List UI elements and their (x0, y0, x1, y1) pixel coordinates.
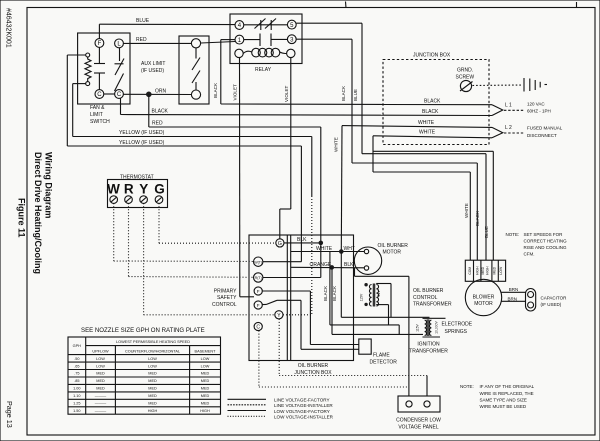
flame detector (359, 339, 371, 354)
L2 arrow (492, 127, 503, 137)
relay contact 4 (235, 21, 244, 30)
svg-text:BLOWER: BLOWER (473, 295, 495, 301)
svg-text:5: 5 (290, 23, 294, 29)
wire blue horizontal to blower (362, 153, 486, 155)
svg-text:.50: .50 (74, 357, 79, 361)
wire G dotted (158, 203, 160, 243)
thermostat screws (110, 196, 163, 204)
svg-text:1.00: 1.00 (73, 387, 80, 391)
svg-text:DETECTOR: DETECTOR (370, 360, 398, 366)
node white junction (339, 249, 344, 254)
wire R dotted (128, 203, 130, 276)
svg-text:60HZ - 1PH: 60HZ - 1PH (527, 109, 551, 114)
ignition transformer (423, 317, 446, 319)
svg-text:YELLOW (IF USED): YELLOW (IF USED) (119, 130, 165, 136)
capacitor (526, 289, 536, 312)
svg-text:ORN: ORN (155, 89, 167, 95)
svg-text:MED: MED (148, 402, 157, 406)
svg-text:MED: MED (201, 394, 210, 398)
relay contact 3 (287, 35, 296, 44)
svg-text:BLUE: BLUE (484, 226, 489, 238)
wire RED L to aux limit (123, 42, 191, 44)
relay contact 5 (287, 20, 296, 29)
svg-text:OIL BURNER: OIL BURNER (298, 363, 329, 369)
svg-text:115V: 115V (359, 293, 363, 301)
svg-text:SAME TYPE AND SIZE: SAME TYPE AND SIZE (480, 397, 527, 402)
wire ORANGE line to oil burner motor (291, 266, 365, 269)
wire resistor bottom stub (73, 83, 86, 85)
svg-text:G: G (154, 182, 165, 197)
svg-text:BLACK: BLACK (475, 210, 480, 226)
junction box dashed (383, 60, 489, 145)
wire white horizontal lower to blower com (373, 171, 470, 173)
svg-text:MED: MED (201, 402, 210, 406)
svg-text:VOLTAGE PANEL: VOLTAGE PANEL (398, 424, 439, 430)
svg-text:MED: MED (148, 372, 157, 376)
wire relay5 right (296, 22, 362, 24)
svg-text:LOWEST PERMISSIBLE HEATING SPE: LOWEST PERMISSIBLE HEATING SPEED (116, 340, 190, 344)
node blk junction (319, 241, 324, 246)
svg-text:WIRE MUST BE USED: WIRE MUST BE USED (480, 404, 527, 409)
svg-text:———: ——— (95, 402, 107, 406)
aux terminal bottom (191, 90, 200, 99)
svg-text:WHITE: WHITE (333, 137, 338, 152)
svg-text:WHITE: WHITE (316, 246, 333, 252)
svg-text:4: 4 (238, 23, 242, 29)
wire F up (98, 24, 100, 38)
relay contact 1 (235, 35, 244, 44)
svg-text:F: F (98, 41, 102, 47)
svg-text:CORRECT HEATING: CORRECT HEATING (524, 238, 568, 243)
svg-text:LOW: LOW (201, 357, 210, 361)
svg-text:NOTE:: NOTE: (506, 232, 520, 237)
fan & limit switch box (78, 33, 130, 104)
svg-text:BLACK: BLACK (213, 82, 218, 98)
svg-text:COM: COM (468, 267, 472, 275)
primary safety control box (249, 235, 354, 361)
svg-text:BLACK: BLACK (323, 285, 328, 301)
wire BRN upper (501, 291, 525, 293)
svg-text:LINE VOLTAGE-INSTALLER: LINE VOLTAGE-INSTALLER (274, 403, 333, 408)
svg-text:.65: .65 (74, 364, 79, 368)
svg-text:G: G (278, 241, 282, 247)
oil burner motor (354, 247, 381, 274)
svg-text:BLACK: BLACK (424, 98, 441, 104)
wire WHITE line to oil burner motor (291, 251, 365, 253)
svg-text:CONTROL: CONTROL (212, 302, 237, 308)
svg-text:YELLOW (IF USED): YELLOW (IF USED) (119, 140, 165, 146)
terminal C left (95, 90, 104, 99)
wire blue from relay5 down (361, 23, 363, 154)
wire F1 to flame detector (262, 290, 310, 292)
svg-text:TRANSFORMER: TRANSFORMER (413, 302, 452, 308)
svg-text:BLACK: BLACK (332, 285, 337, 301)
svg-text:VIOLET: VIOLET (284, 85, 289, 102)
wire orange dot down (148, 94, 150, 127)
svg-text:10,000V: 10,000V (434, 320, 438, 333)
svg-text:RED: RED (136, 37, 147, 43)
svg-text:BLK: BLK (344, 262, 354, 268)
svg-text:WHITE: WHITE (418, 120, 435, 126)
svg-text:RISE AND COOLING: RISE AND COOLING (524, 245, 568, 250)
wire BLK from G (284, 242, 321, 244)
relay coil terminal right (287, 49, 295, 57)
svg-text:JUNCTION BOX: JUNCTION BOX (413, 53, 451, 59)
legend (228, 398, 267, 400)
terminal L (115, 39, 124, 48)
svg-text:LOW: LOW (96, 364, 105, 368)
wire Y dotted (143, 203, 145, 315)
svg-text:SEE NOZZLE SIZE GPH ON RATING: SEE NOZZLE SIZE GPH ON RATING PLATE (81, 327, 205, 334)
svg-text:UPFLOW: UPFLOW (92, 350, 109, 354)
svg-text:1.10: 1.10 (73, 394, 80, 398)
L1 arrow (492, 105, 503, 116)
svg-text:F: F (257, 303, 260, 308)
terminal F lower (254, 301, 262, 309)
svg-text:Direct Drive Heating/Cooling: Direct Drive Heating/Cooling (33, 152, 43, 274)
svg-text:WHT: WHT (344, 246, 355, 252)
svg-text:#46432K001: #46432K001 (5, 8, 12, 48)
svg-text:MED: MED (96, 379, 105, 383)
svg-text:R(T): R(T) (255, 276, 262, 280)
wire black from relay3 down (351, 39, 353, 163)
terminal F upper (254, 287, 262, 295)
svg-text:RELAY: RELAY (255, 67, 272, 73)
svg-text:SCREW: SCREW (456, 75, 475, 81)
svg-text:Figure 11: Figure 11 (17, 198, 27, 238)
svg-text:HIGH: HIGH (476, 266, 480, 275)
svg-text:BLACK: BLACK (422, 109, 439, 115)
wire BLACK lower L1 (121, 114, 384, 117)
svg-text:R: R (124, 182, 134, 197)
svg-text:W: W (107, 182, 120, 197)
relay coil terminal left (235, 49, 243, 57)
wire aux limit to relay 1 (201, 42, 236, 44)
terminal W(T) (254, 257, 263, 266)
wire BRN lower (501, 300, 526, 302)
ground (523, 78, 525, 92)
svg-text:.85: .85 (74, 379, 79, 383)
wire violet1 (239, 58, 241, 297)
svg-text:WHITE: WHITE (464, 203, 469, 218)
relay box (230, 14, 302, 64)
wire black feed A2 (329, 252, 331, 325)
svg-text:LINE VOLTAGE-FACTORY: LINE VOLTAGE-FACTORY (274, 398, 330, 403)
terminal G (276, 239, 284, 247)
svg-text:SET SPEEDS FOR: SET SPEEDS FOR (524, 232, 564, 237)
svg-text:SPRINGS: SPRINGS (445, 329, 468, 335)
svg-text:MED: MED (201, 387, 210, 391)
terminal C (254, 322, 262, 330)
svg-text:RED: RED (152, 121, 163, 127)
relay top contact switch (244, 24, 288, 26)
svg-text:L 1: L 1 (505, 103, 512, 109)
svg-text:MED: MED (201, 379, 210, 383)
terminal Y (275, 311, 283, 319)
wire black feed A to ignition transformer (331, 267, 333, 334)
svg-text:LOW: LOW (148, 357, 157, 361)
svg-text:LOW VOLTAGE-INSTALLER: LOW VOLTAGE-INSTALLER (274, 415, 334, 420)
svg-text:MED: MED (201, 372, 210, 376)
wire white lower L2 (373, 136, 492, 138)
svg-text:Page 13: Page 13 (5, 401, 14, 428)
svg-text:3: 3 (290, 37, 294, 43)
aux switch (195, 48, 197, 59)
capacitor contact between F and C (98, 47, 100, 63)
wire dotted to ground (473, 84, 523, 87)
wire C to C (104, 93, 115, 95)
svg-text:1.50: 1.50 (73, 409, 80, 413)
node orange junction (146, 92, 152, 98)
svg-text:ORANGE: ORANGE (310, 262, 332, 268)
wire white upper L2 (342, 125, 383, 128)
svg-text:BLACK: BLACK (152, 109, 169, 115)
relay coil (243, 51, 251, 53)
svg-text:L: L (117, 42, 121, 48)
svg-text:1: 1 (238, 38, 242, 44)
wire L1 upper black (221, 103, 383, 106)
svg-text:WHITE: WHITE (419, 130, 436, 136)
svg-text:120 VAC: 120 VAC (527, 102, 545, 107)
svg-text:BASEMENT: BASEMENT (195, 350, 217, 354)
svg-text:NOTE:: NOTE: (460, 384, 474, 389)
condenser low voltage panel (398, 396, 440, 412)
wire W dotted (113, 203, 115, 261)
wire white feed B to ignition transformer (340, 252, 342, 318)
svg-text:BLACK: BLACK (341, 85, 346, 101)
wire transformer secondary top (376, 283, 391, 285)
svg-text:PRIMARY: PRIMARY (214, 289, 237, 295)
wire motor blk branch to condenser (354, 268, 356, 277)
wire violet2 (290, 58, 292, 209)
wire yellow2 down to WT (300, 146, 302, 262)
svg-text:C: C (256, 325, 260, 331)
svg-text:LOW VOLTAGE-FACTORY: LOW VOLTAGE-FACTORY (274, 409, 330, 414)
relay middle contact (244, 39, 260, 41)
node orange junction (330, 265, 335, 270)
svg-text:———: ——— (95, 394, 107, 398)
wire yellow1 down to Y (311, 137, 313, 197)
svg-text:F: F (257, 289, 260, 294)
aux limit box (179, 36, 209, 104)
svg-text:GPH: GPH (73, 344, 81, 348)
svg-text:SWITCH: SWITCH (90, 119, 110, 125)
oil burner control transformer (364, 283, 367, 286)
heater resistor (86, 53, 90, 57)
svg-text:OIL BURNER: OIL BURNER (413, 288, 444, 294)
wire RED lower (149, 126, 321, 128)
svg-text:MED: MED (148, 379, 157, 383)
svg-text:.75: .75 (74, 372, 79, 376)
svg-text:115V: 115V (415, 323, 419, 331)
svg-text:GRND.: GRND. (457, 68, 473, 74)
svg-text:IF ANY OF THE ORIGINAL: IF ANY OF THE ORIGINAL (480, 384, 535, 389)
svg-text:MOTOR: MOTOR (383, 249, 402, 255)
svg-text:Wiring Diagram: Wiring Diagram (44, 152, 54, 218)
terminal R(T) (254, 273, 263, 282)
svg-text:BLUE: BLUE (136, 18, 150, 24)
wire transformer secondary bottom (376, 304, 388, 306)
svg-text:MED: MED (481, 266, 485, 274)
svg-text:LOW: LOW (201, 364, 210, 368)
svg-text:CONTROL: CONTROL (413, 295, 438, 301)
nozzle table (68, 337, 221, 414)
svg-text:SAFETY: SAFETY (217, 295, 237, 301)
terminal F (95, 39, 104, 48)
svg-text:LOW: LOW (499, 266, 503, 275)
svg-text:MED: MED (148, 394, 157, 398)
svg-text:FUSED MANUAL: FUSED MANUAL (527, 126, 563, 131)
wire resistor top stub (67, 54, 85, 56)
wire C dotted down to condenser (258, 331, 260, 387)
svg-text:LOW: LOW (96, 357, 105, 361)
svg-text:HIGH: HIGH (200, 409, 210, 413)
svg-text:BRN: BRN (509, 287, 519, 292)
wire black horizontal to blower (352, 162, 477, 164)
svg-text:IGNITION: IGNITION (417, 341, 440, 347)
svg-text:MOTOR: MOTOR (474, 301, 493, 307)
svg-text:MED: MED (96, 387, 105, 391)
svg-text:TRANSFORMER: TRANSFORMER (409, 348, 448, 354)
svg-text:———: ——— (95, 409, 107, 413)
svg-text:W(T): W(T) (254, 260, 262, 264)
svg-text:AUX LIMIT: AUX LIMIT (141, 61, 165, 67)
svg-text:WIRE IS REPLACED, THE: WIRE IS REPLACED, THE (480, 391, 534, 396)
thermostat dotted wires (114, 203, 276, 315)
blower motor (465, 279, 501, 315)
wire ORN C to aux limit (123, 93, 191, 95)
svg-text:HIGH: HIGH (485, 266, 489, 275)
svg-text:VIOLET: VIOLET (232, 84, 237, 101)
svg-text:MED: MED (96, 372, 105, 376)
svg-text:CAPACITOR: CAPACITOR (541, 296, 568, 301)
terminal C right (115, 90, 124, 99)
svg-text:ELECTRODE: ELECTRODE (442, 322, 473, 328)
svg-text:JUNCTION BOX: JUNCTION BOX (294, 370, 332, 376)
svg-text:L 2: L 2 (505, 125, 512, 131)
outer frame (345, 2, 348, 9)
svg-text:BLUE: BLUE (353, 89, 358, 101)
svg-text:Y: Y (139, 182, 148, 197)
wire relay1 left to black down (221, 39, 235, 41)
svg-text:(IF USED): (IF USED) (141, 68, 164, 74)
wire red down through blk node to RT (320, 127, 322, 278)
wire white horizontal to blower (373, 150, 493, 152)
svg-text:LOW: LOW (148, 364, 157, 368)
svg-text:1.25: 1.25 (73, 402, 80, 406)
wire BLUE (99, 23, 235, 25)
wire white down to safety control (340, 126, 343, 251)
svg-text:C: C (97, 92, 102, 98)
wire yellow2 (67, 145, 301, 147)
svg-text:LIMIT: LIMIT (90, 112, 103, 118)
svg-text:C: C (117, 92, 122, 98)
svg-text:CFM.: CFM. (524, 251, 535, 256)
switch between L and C (119, 48, 121, 61)
svg-text:OIL BURNER: OIL BURNER (378, 243, 409, 249)
wire Y dotted down to condenser (278, 319, 280, 376)
svg-text:(IF USED): (IF USED) (541, 302, 562, 307)
svg-text:BRN: BRN (508, 297, 518, 302)
wire yellow1 (73, 136, 312, 138)
svg-text:FLAME: FLAME (373, 353, 390, 359)
svg-text:FAN &: FAN & (90, 105, 105, 111)
wire F2 to flame detector (262, 303, 266, 305)
wire relay3 right (296, 38, 352, 40)
svg-text:HIGH: HIGH (148, 409, 158, 413)
svg-text:COUNTERFLOW/HORIZONTAL: COUNTERFLOW/HORIZONTAL (125, 350, 180, 354)
svg-text:CONDENSER LOW: CONDENSER LOW (396, 417, 441, 423)
svg-text:24V: 24V (377, 290, 381, 297)
svg-text:MED: MED (148, 387, 157, 391)
svg-text:DISCONNECT: DISCONNECT (527, 133, 557, 138)
aux terminal top (191, 39, 200, 48)
blower terminal box (465, 260, 505, 281)
svg-text:BLK: BLK (297, 237, 307, 243)
svg-text:MED: MED (493, 266, 497, 274)
wire C down (120, 98, 122, 114)
